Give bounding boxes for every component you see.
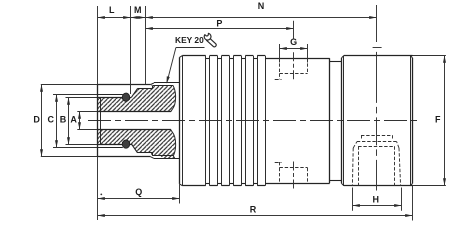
wrench icon <box>203 33 216 47</box>
dimension B <box>68 98 70 145</box>
dimension R <box>98 215 413 217</box>
dimension D <box>41 85 43 157</box>
ext line A bottom <box>77 129 97 131</box>
left hub hatched section upper <box>97 85 175 111</box>
sleeve groove edge lines <box>205 56 207 186</box>
right hub chamfer diag tl <box>342 56 344 58</box>
cover step diag bottom <box>151 157 154 159</box>
setscrew hole bottom right wall <box>307 168 309 183</box>
dimension P <box>146 28 294 30</box>
main centerline <box>88 120 417 122</box>
ext line F bottom <box>413 185 446 187</box>
left hub face chamfer line <box>100 97 102 144</box>
ext line o-ring <box>130 6 132 94</box>
wavy break line <box>171 85 176 158</box>
ext line C bottom <box>53 147 97 149</box>
right hub left chamfer line <box>343 56 345 186</box>
o-ring bottom <box>122 140 129 148</box>
ext line hub left bottom <box>97 157 99 220</box>
setscrew hole bottom centerline <box>293 162 295 190</box>
sleeve body top <box>265 58 330 60</box>
ext line C top <box>53 94 97 96</box>
right hub chamfer diag br <box>410 183 412 185</box>
dimension M <box>131 17 146 19</box>
svg-text:C: C <box>47 115 54 125</box>
sleeve right face <box>329 58 331 183</box>
sleeve chamfer line <box>182 56 184 186</box>
cover lip ID top <box>97 94 123 96</box>
right hub centerline vertical <box>376 52 378 191</box>
ext line H left <box>352 188 354 211</box>
boss inner left <box>358 146 360 186</box>
center mark tick <box>373 47 382 49</box>
svg-text:F: F <box>435 115 441 125</box>
hub flange top <box>97 97 123 99</box>
svg-text:B: B <box>60 115 67 125</box>
left hub hatched section lower <box>97 130 175 159</box>
sleeve left face <box>179 57 181 183</box>
dimension N <box>146 17 377 19</box>
ext line B top <box>66 97 98 99</box>
ext line G left <box>279 44 281 63</box>
right hub right chamfer line <box>410 56 412 186</box>
svg-text:P: P <box>216 19 222 29</box>
ext line N right <box>376 5 378 42</box>
sleeve collar and rib tops <box>182 55 205 57</box>
left hub left face <box>97 85 99 157</box>
svg-text:H: H <box>373 194 380 204</box>
o-ring top <box>122 93 129 101</box>
ext line G right <box>307 44 309 63</box>
svg-text:M: M <box>134 5 142 15</box>
cover step diag top <box>151 83 154 85</box>
sleeve collar and rib bottoms <box>182 185 205 187</box>
keyway diag bottom <box>132 144 138 153</box>
boss upper ring line <box>357 141 397 143</box>
sleeve body bottom <box>265 183 330 185</box>
cover outline top <box>154 82 179 84</box>
cover lip OD top <box>97 84 150 86</box>
svg-text:R: R <box>250 204 257 214</box>
right hub right face <box>412 58 414 183</box>
key leader line <box>176 47 205 49</box>
setscrew hole top centerline <box>293 52 295 79</box>
boss shoulder right <box>397 142 399 148</box>
ext line hub left top <box>97 6 99 85</box>
right hub top <box>344 55 413 57</box>
ext line P right <box>293 21 295 39</box>
cover lip ID bottom <box>97 147 123 149</box>
neck bottom <box>330 180 342 182</box>
key leader arrow <box>167 76 170 83</box>
boss plateau <box>361 135 392 137</box>
ext line D top <box>41 84 98 86</box>
dimension H <box>353 205 402 207</box>
dimension A <box>79 112 81 130</box>
boss lower ring line <box>358 146 394 148</box>
o-ring groove bottom <box>122 142 124 144</box>
keyway hidden line bottom <box>279 162 281 168</box>
setscrew hole top left wall <box>279 58 281 73</box>
svg-text:N: N <box>258 1 265 11</box>
svg-text:A: A <box>70 115 77 125</box>
dimension F <box>444 56 446 186</box>
boss outer right <box>399 148 401 186</box>
boss shoulder left <box>353 142 357 148</box>
sleeve chamfer diag top <box>179 56 182 58</box>
hub flange bottom <box>97 144 123 146</box>
dimension L <box>98 17 131 19</box>
ext line Q right <box>179 184 181 203</box>
dimension G <box>280 48 308 50</box>
ext line F top <box>413 55 446 57</box>
ext line A top <box>77 111 97 113</box>
neck top <box>330 61 342 63</box>
ext line D bottom <box>41 156 98 158</box>
keyway hidden line top <box>279 74 281 80</box>
cover outline bottom <box>154 158 179 160</box>
svg-text:L: L <box>109 5 115 15</box>
right hub chamfer diag bl <box>342 183 344 185</box>
o-ring groove top <box>122 97 124 99</box>
setscrew hole top bottom <box>280 73 308 75</box>
ext line R right <box>412 186 414 221</box>
boss inner right <box>394 146 396 186</box>
sleeve chamfer diag bottom <box>179 184 182 186</box>
right hub chamfer diag tr <box>410 56 412 58</box>
ext line B bottom <box>66 144 98 146</box>
dimension Q <box>98 198 180 200</box>
stray dot <box>100 194 102 196</box>
setscrew hole bottom left wall <box>279 168 281 183</box>
svg-text:Q: Q <box>135 187 142 197</box>
right hub left face <box>341 58 343 183</box>
svg-text:D: D <box>33 115 40 125</box>
setscrew hole top right wall <box>307 58 309 73</box>
cover lip OD bottom <box>97 156 150 158</box>
setscrew hole bottom top <box>280 167 308 169</box>
boss outer left <box>351 148 354 186</box>
right hub bottom <box>344 185 413 187</box>
dimension C <box>56 95 58 148</box>
keyway diag top <box>132 89 138 98</box>
ext line keyway <box>145 6 147 85</box>
bore line bottom <box>97 129 171 131</box>
key seat top <box>138 88 153 90</box>
bore line top <box>97 111 171 113</box>
ext line H right <box>401 188 403 211</box>
svg-text:G: G <box>290 37 297 47</box>
key seat bottom <box>138 152 153 154</box>
svg-text:KEY 20: KEY 20 <box>175 35 204 45</box>
